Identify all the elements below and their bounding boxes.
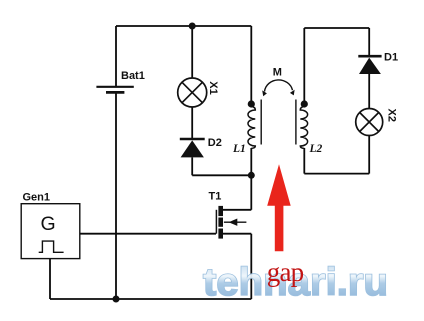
wire: left circuit top rail — [116, 25, 251, 27]
wire: bottom rail — [50, 298, 251, 300]
wire: D1 to X2 — [368, 74, 370, 109]
wire: source lead horizontal — [223, 233, 251, 235]
gate bar — [215, 210, 217, 234]
channel segment bottom — [218, 229, 223, 239]
wire: L2 bottom lead — [303, 148, 305, 174]
svg-text:G: G — [41, 213, 56, 235]
wire: diode D2 down to branch bottom — [191, 157, 193, 175]
battery Bat1 — [96, 87, 133, 93]
wire: drain lead horizontal — [223, 209, 251, 211]
wire: lamp X1 branch top — [191, 26, 193, 78]
wire: right circuit top rail — [304, 27, 369, 29]
coupling arrowhead left — [262, 90, 267, 96]
body arrow line — [224, 221, 247, 223]
wire: gate lead from generator — [80, 233, 216, 235]
diode D1 — [358, 56, 381, 74]
channel segment top — [218, 206, 223, 216]
annotation arrow gap — [267, 164, 291, 251]
wire: X2 bottom lead — [368, 136, 370, 174]
svg-text:D1: D1 — [384, 52, 398, 64]
wire: source lead down to bottom rail — [250, 234, 252, 299]
lamp X2 — [356, 109, 383, 136]
svg-text:gap: gap — [267, 257, 304, 287]
diode D2 — [180, 139, 205, 157]
transformer core line left — [260, 100, 262, 145]
pulse symbol — [39, 241, 64, 252]
body arrowhead — [229, 219, 238, 226]
polarity dot L2 — [301, 100, 308, 107]
wire: L1 bottom lead to junction — [250, 148, 252, 175]
wire: battery top lead — [115, 26, 117, 87]
polarity dot L1 — [248, 100, 255, 107]
wire: generator bottom lead — [49, 259, 51, 299]
svg-text:D2: D2 — [208, 137, 222, 149]
lamp X1 — [178, 78, 207, 107]
transformer core line right — [295, 100, 297, 145]
channel segment middle — [218, 218, 223, 227]
svg-text:M: M — [273, 67, 282, 79]
wire: battery bottom lead down to bottom rail — [115, 93, 117, 299]
svg-text:Gen1: Gen1 — [23, 191, 51, 203]
generator Gen1 — [21, 204, 80, 259]
inductor L2 — [300, 104, 307, 148]
wire: D1 top lead — [368, 28, 370, 56]
svg-text:L2: L2 — [309, 143, 323, 155]
mutual coupling arc M — [265, 80, 293, 92]
svg-text:Bat1: Bat1 — [121, 70, 145, 82]
wire: L1 top lead from top rail — [250, 26, 252, 101]
junction node bottom rail / battery — [113, 296, 120, 303]
svg-text:X2: X2 — [385, 109, 397, 122]
wire: drain lead vertical — [250, 175, 252, 210]
coupling arrowhead right — [290, 90, 295, 96]
inductor L1 — [248, 104, 255, 148]
svg-text:T1: T1 — [209, 191, 222, 203]
svg-text:X1: X1 — [207, 81, 219, 94]
junction node top rail / lamp branch — [189, 23, 196, 30]
junction node branch bottom / L1 — [248, 172, 255, 179]
svg-text:L1: L1 — [232, 143, 246, 155]
transistor T1 MOSFET — [216, 206, 246, 239]
wire: right circuit bottom rail — [304, 173, 369, 175]
wire: lamp X1 to diode D2 — [191, 107, 193, 139]
wire: L2 top lead — [303, 28, 305, 101]
wire: branch bottom horizontal to L1 node — [192, 174, 251, 176]
